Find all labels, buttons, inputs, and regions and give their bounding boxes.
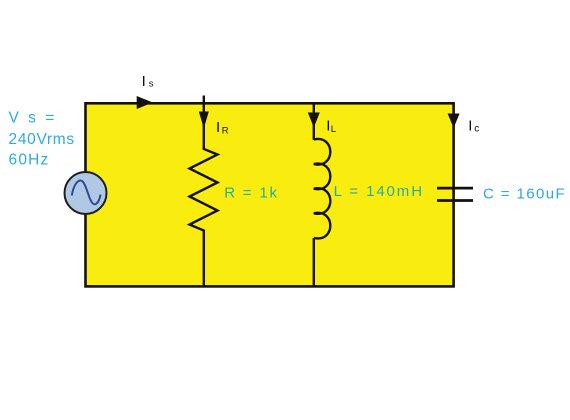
svg-text:V s =: V s =: [9, 110, 57, 127]
resistor R1 zigzag: [190, 147, 218, 286]
svg-text:c: c: [474, 123, 479, 134]
capacitor C1 plates: [437, 187, 473, 190]
wire: inductor branch top: [313, 103, 315, 140]
inductor L1 coil: [314, 139, 331, 238]
svg-text:L: L: [331, 124, 336, 135]
arrow I_c: [448, 114, 460, 129]
svg-text:60Hz: 60Hz: [9, 151, 50, 168]
svg-text:I: I: [468, 118, 472, 135]
wire: inductor branch bottom: [313, 238, 315, 286]
circuit outline rectangle (yellow mesh): [86, 103, 454, 286]
svg-text:R = 1k: R = 1k: [224, 185, 279, 202]
svg-text:240Vrms: 240Vrms: [9, 131, 75, 148]
svg-text:C = 160uF: C = 160uF: [483, 185, 566, 202]
AC source sine wave: [72, 181, 101, 205]
arrow I_s on top rail: [137, 96, 153, 109]
svg-text:R: R: [222, 125, 229, 136]
svg-text:s: s: [149, 79, 154, 90]
svg-text:I: I: [216, 119, 220, 136]
AC source V1 circle: [65, 172, 107, 214]
svg-text:L = 140mH: L = 140mH: [334, 183, 424, 200]
arrow I_L: [308, 113, 320, 128]
wire: resistor branch top nub: [203, 96, 205, 150]
arrow I_R: [199, 112, 209, 129]
svg-text:I: I: [142, 73, 146, 90]
